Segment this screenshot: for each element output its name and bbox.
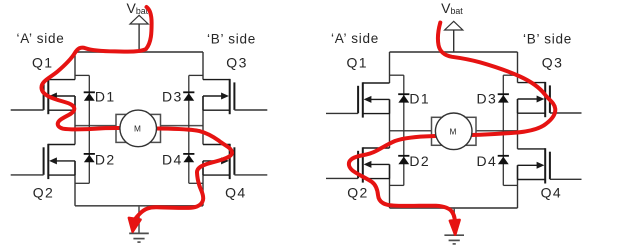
top rail bbox=[75, 51, 203, 53]
gate bar bbox=[43, 82, 45, 110]
body stub with arrow bbox=[518, 164, 539, 166]
D3 tap bbox=[503, 74, 517, 76]
svg-text:Q3: Q3 bbox=[226, 55, 247, 71]
channel bar bbox=[229, 79, 231, 114]
drain stub bbox=[518, 82, 546, 84]
body stub with arrow bbox=[55, 160, 75, 162]
channel bar bbox=[362, 147, 364, 182]
diode D1 bbox=[84, 91, 95, 93]
body-source junction bbox=[202, 96, 204, 110]
channel bar bbox=[47, 144, 49, 179]
red current path: Vbat->Q1->motor->Q4->ground bbox=[41, 7, 232, 218]
Q4 gate lead bbox=[550, 178, 582, 180]
left leg mid bbox=[389, 99, 391, 148]
source stub bbox=[363, 178, 390, 180]
svg-text:D3: D3 bbox=[477, 91, 498, 107]
left leg mid bbox=[74, 96, 76, 145]
svg-text:D2: D2 bbox=[95, 151, 116, 167]
motor body rect bbox=[432, 117, 477, 145]
drain stub bbox=[363, 82, 390, 84]
drain stub bbox=[518, 148, 546, 150]
diode D4 bbox=[183, 153, 194, 155]
bottom rail bbox=[390, 207, 518, 209]
D1 tap bbox=[390, 74, 404, 76]
V_bat arrow bbox=[453, 30, 455, 52]
gate bar bbox=[549, 152, 551, 180]
channel bar bbox=[544, 82, 546, 117]
gate bar bbox=[357, 86, 359, 114]
Q3 gate lead bbox=[550, 112, 582, 114]
gate bar bbox=[43, 147, 45, 175]
right leg lower bbox=[202, 161, 204, 206]
channel bar bbox=[47, 79, 49, 114]
left leg upper bbox=[389, 52, 391, 83]
source stub bbox=[48, 174, 75, 176]
red arrowhead at ground bbox=[450, 220, 460, 235]
body-source junction bbox=[74, 96, 76, 110]
D1 tap bbox=[75, 74, 89, 76]
gate bar bbox=[233, 82, 235, 110]
svg-text:D1: D1 bbox=[95, 89, 116, 105]
gate bar bbox=[549, 85, 551, 113]
right leg mid bbox=[202, 96, 204, 145]
motor body rect bbox=[116, 114, 161, 142]
D2 branch bbox=[88, 126, 90, 184]
D2 branch bbox=[403, 131, 405, 186]
D3 tap bbox=[189, 74, 203, 76]
motor rail bbox=[390, 130, 518, 132]
body stub with arrow bbox=[518, 98, 539, 100]
body stub with arrow bbox=[55, 95, 75, 97]
source stub bbox=[518, 179, 546, 181]
D4 branch bbox=[188, 126, 190, 184]
top rail bbox=[390, 51, 518, 53]
D2 tap bbox=[75, 182, 89, 184]
svg-text:‘A’ side: ‘A’ side bbox=[17, 31, 65, 46]
left leg lower bbox=[74, 161, 76, 206]
D1 branch bbox=[403, 75, 405, 131]
diode D3 bbox=[498, 93, 509, 95]
svg-text:M: M bbox=[134, 123, 141, 133]
red arrowhead at ground bbox=[129, 218, 141, 232]
D2 tap bbox=[390, 184, 404, 186]
Q2 gate lead bbox=[11, 174, 44, 176]
diode D2 bbox=[84, 153, 95, 155]
source stub bbox=[363, 113, 390, 115]
svg-text:M: M bbox=[450, 126, 457, 136]
gate bar bbox=[357, 151, 359, 179]
svg-text:‘B’ side: ‘B’ side bbox=[523, 31, 572, 46]
bottom rail bbox=[75, 205, 203, 207]
channel bar bbox=[229, 144, 231, 179]
motor circle bbox=[435, 113, 472, 150]
svg-text:Q3: Q3 bbox=[542, 55, 563, 71]
red current path: Vbat->Q3->motor->Q2->ground bbox=[349, 23, 555, 219]
Q1 gate lead bbox=[326, 112, 358, 114]
body-source junction bbox=[74, 161, 76, 175]
Q3 gate lead bbox=[234, 109, 267, 111]
Q1 gate lead bbox=[11, 109, 44, 111]
drain stub bbox=[48, 144, 75, 146]
source stub bbox=[203, 174, 230, 176]
svg-text:Q4: Q4 bbox=[541, 184, 562, 200]
diode D2 bbox=[398, 155, 409, 157]
D4 branch bbox=[502, 131, 504, 186]
V_bat arrow bbox=[138, 24, 140, 52]
right leg mid bbox=[517, 99, 519, 149]
body stub with arrow bbox=[370, 98, 390, 100]
svg-text:Q4: Q4 bbox=[225, 184, 246, 200]
drain stub bbox=[203, 79, 230, 81]
diode D1 bbox=[398, 93, 409, 95]
right leg upper bbox=[202, 52, 204, 80]
left leg lower bbox=[389, 164, 391, 208]
svg-text:Q1: Q1 bbox=[32, 55, 53, 71]
svg-text:D2: D2 bbox=[409, 153, 430, 169]
svg-text:D4: D4 bbox=[162, 151, 183, 167]
svg-text:D4: D4 bbox=[477, 153, 498, 169]
body-source junction bbox=[517, 165, 519, 179]
diode D4 bbox=[498, 155, 509, 157]
svg-text:Vbat: Vbat bbox=[441, 0, 463, 16]
drain stub bbox=[363, 147, 390, 149]
ground bbox=[453, 208, 455, 235]
diode D3 bbox=[183, 91, 194, 93]
svg-text:D3: D3 bbox=[162, 89, 183, 105]
body stub with arrow bbox=[203, 160, 223, 162]
left leg upper bbox=[74, 52, 76, 80]
body stub with arrow bbox=[370, 163, 390, 165]
body-source junction bbox=[389, 99, 391, 113]
D3 branch bbox=[188, 75, 190, 125]
D4 tap bbox=[503, 184, 517, 186]
svg-text:‘B’ side: ‘B’ side bbox=[207, 31, 256, 46]
body-source junction bbox=[517, 99, 519, 113]
motor rail bbox=[75, 125, 203, 127]
Q4 gate lead bbox=[234, 174, 267, 176]
drain stub bbox=[48, 79, 75, 81]
body stub with arrow bbox=[203, 95, 223, 97]
D4 tap bbox=[189, 182, 203, 184]
Q2 gate lead bbox=[326, 177, 358, 179]
channel bar bbox=[362, 82, 364, 117]
svg-text:Q1: Q1 bbox=[347, 55, 368, 71]
motor circle bbox=[120, 110, 157, 147]
svg-text:Q2: Q2 bbox=[347, 184, 368, 200]
svg-text:‘A’ side: ‘A’ side bbox=[331, 31, 379, 46]
source stub bbox=[203, 109, 230, 111]
ground bbox=[138, 206, 140, 234]
svg-text:D1: D1 bbox=[409, 91, 430, 107]
body-source junction bbox=[202, 161, 204, 175]
D3 branch bbox=[502, 75, 504, 131]
drain stub bbox=[203, 144, 230, 146]
D1 branch bbox=[88, 75, 90, 125]
svg-text:Q2: Q2 bbox=[33, 184, 54, 200]
channel bar bbox=[544, 148, 546, 183]
body-source junction bbox=[389, 164, 391, 178]
gate bar bbox=[233, 147, 235, 175]
source stub bbox=[518, 112, 546, 114]
source stub bbox=[48, 109, 75, 111]
right leg upper bbox=[517, 52, 519, 83]
right leg lower bbox=[517, 165, 519, 208]
